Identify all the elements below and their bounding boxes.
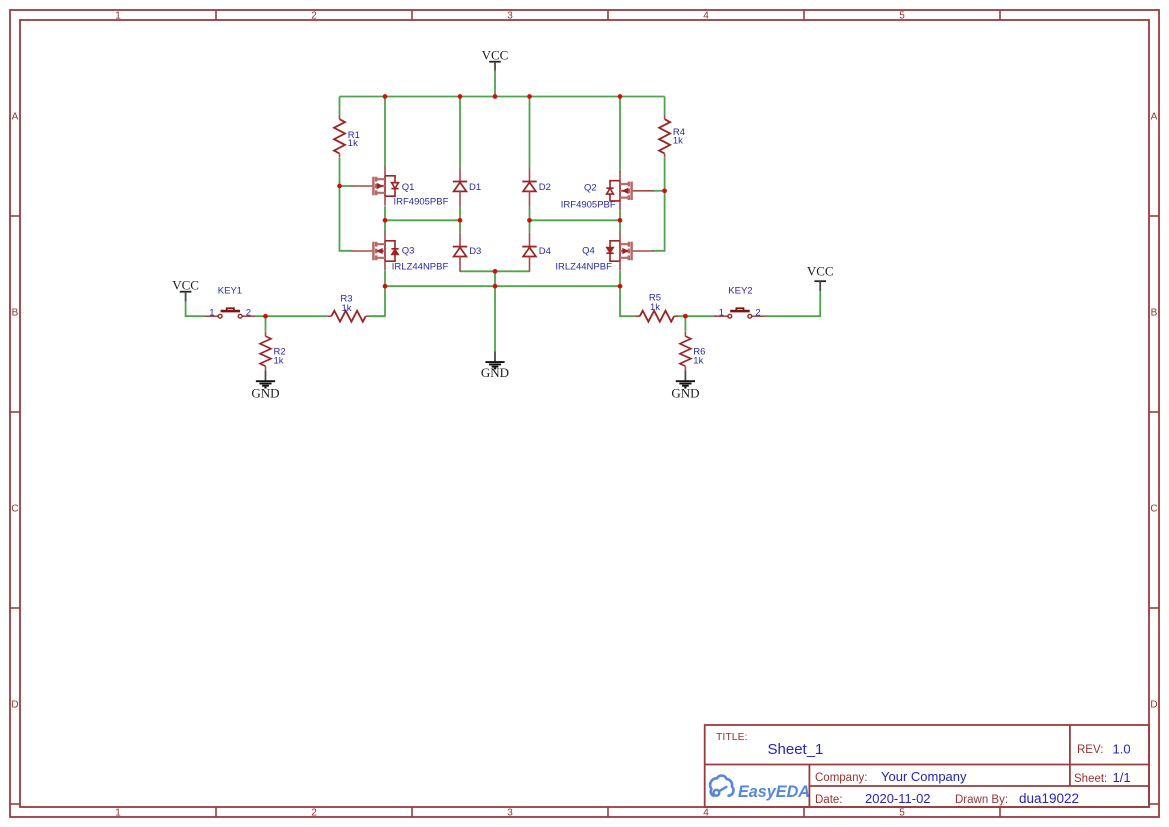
wire bus to Q2 drain [619, 97, 621, 173]
power flag VCC (left) [172, 278, 199, 302]
wire top VCC bus [340, 96, 665, 98]
svg-text:A: A [1151, 112, 1158, 123]
svg-text:C: C [1150, 504, 1157, 515]
svg-text:dua19022: dua19022 [1019, 791, 1079, 806]
wire left mid link [385, 219, 460, 221]
wire D3 to center node [460, 270, 495, 272]
wire junction [263, 314, 268, 319]
svg-text:KEY2: KEY2 [728, 286, 752, 297]
svg-text:Company:: Company: [815, 772, 867, 784]
wire R5 to KEY2 [675, 315, 717, 317]
diode D2 [522, 167, 551, 206]
wire R1 node to Q1 gate [340, 185, 353, 187]
wire source bus [385, 285, 620, 287]
svg-text:D4: D4 [539, 246, 551, 257]
svg-text:1k: 1k [650, 302, 660, 313]
wire node to R2 [265, 316, 267, 332]
diode D4 [522, 232, 551, 271]
svg-text:Your Company: Your Company [881, 769, 967, 784]
wire bus to Q1 drain [384, 97, 386, 167]
wire R4 to Q2/Q4 gates [652, 158, 664, 251]
svg-text:Sheet:: Sheet: [1074, 773, 1107, 785]
svg-text:3: 3 [507, 808, 513, 819]
svg-text:D: D [11, 700, 18, 711]
wire D1 to mid node [459, 207, 461, 221]
wire junction [618, 94, 623, 99]
wire VCC to KEY1 [186, 302, 205, 317]
wire bus to R1 [339, 97, 341, 116]
svg-text:C: C [11, 504, 18, 515]
svg-text:1.0: 1.0 [1113, 742, 1131, 757]
wire right mid link [530, 219, 621, 221]
transistor Q3 [352, 231, 399, 270]
wire mid node to Q3 drain [384, 220, 386, 231]
switch KEY2 [714, 286, 765, 319]
power flag VCC (top) [482, 47, 509, 71]
svg-text:Sheet_1: Sheet_1 [768, 741, 824, 758]
svg-text:1/1: 1/1 [1113, 770, 1131, 785]
wire bus to D2 [529, 97, 531, 168]
svg-text:3: 3 [507, 11, 513, 22]
ground GND (left) [251, 371, 279, 401]
svg-text:B: B [12, 308, 19, 319]
resistor R1 [334, 115, 360, 158]
svg-text:1: 1 [115, 808, 121, 819]
wire junction [527, 94, 532, 99]
resistor R2 [260, 332, 286, 370]
svg-text:4: 4 [703, 11, 709, 22]
title block [705, 725, 1149, 807]
svg-text:GND: GND [251, 386, 279, 401]
svg-text:2020-11-02: 2020-11-02 [865, 791, 931, 806]
diode D1 [453, 167, 481, 206]
wire center node to GND [494, 271, 496, 351]
wire R5 corner [636, 315, 640, 317]
svg-text:D: D [1150, 700, 1157, 711]
svg-text:1k: 1k [693, 355, 703, 366]
wire Q4 source to R5 corner [620, 271, 636, 316]
svg-text:D2: D2 [539, 182, 551, 193]
ground GND (center) [481, 351, 509, 380]
resistor R4 [659, 115, 685, 158]
svg-text:EasyEDA: EasyEDA [738, 783, 810, 801]
wire junction [383, 284, 388, 289]
svg-text:IRLZ44NPBF: IRLZ44NPBF [555, 262, 612, 273]
wire junction [527, 218, 532, 223]
svg-text:2: 2 [311, 11, 317, 22]
svg-text:IRF4905PBF: IRF4905PBF [394, 196, 449, 207]
wire junction [618, 284, 623, 289]
wire junction [493, 94, 498, 99]
svg-text:D1: D1 [469, 182, 481, 193]
svg-text:Q2: Q2 [584, 183, 597, 194]
transistor Q4 [606, 231, 653, 270]
svg-text:4: 4 [703, 808, 709, 819]
wire D4 to center node [495, 270, 530, 272]
svg-text:TITLE:: TITLE: [716, 731, 748, 743]
svg-text:Q3: Q3 [402, 246, 415, 257]
wire mid node to Q4 drain [619, 220, 621, 231]
wire junction [458, 94, 463, 99]
power flag VCC (right) [807, 264, 834, 292]
switch KEY1 [205, 286, 256, 319]
wire R1 to Q1/Q3 gates [340, 158, 353, 251]
svg-text:5: 5 [899, 808, 905, 819]
wire junction [493, 284, 498, 289]
wire node to R6 [684, 316, 686, 332]
wire Q2 source to mid node [619, 210, 621, 220]
svg-text:GND: GND [671, 386, 699, 401]
wire bus to R4 [664, 97, 666, 116]
wire junction [383, 94, 388, 99]
svg-text:IRF4905PBF: IRF4905PBF [561, 200, 616, 211]
svg-text:B: B [1151, 308, 1158, 319]
wire junction [683, 314, 688, 319]
svg-text:VCC: VCC [482, 47, 509, 62]
svg-text:1k: 1k [274, 355, 284, 366]
svg-text:Date:: Date: [815, 794, 843, 806]
resistor R3 [327, 293, 370, 321]
svg-text:Q1: Q1 [402, 182, 415, 193]
wire junction [383, 218, 388, 223]
wire KEY1 to R3 [256, 315, 328, 317]
wire junction [662, 188, 667, 193]
wire junction [493, 269, 498, 274]
ground GND (right) [671, 371, 699, 401]
wire bus to D1 [459, 97, 461, 168]
svg-text:D3: D3 [469, 246, 481, 257]
svg-text:VCC: VCC [172, 278, 199, 293]
svg-text:1k: 1k [341, 303, 351, 314]
wire KEY2 to VCC [765, 291, 820, 316]
svg-text:2: 2 [311, 808, 317, 819]
EasyEDA logo [710, 776, 810, 801]
wire mid node to D3 [459, 220, 461, 232]
wire junction [458, 218, 463, 223]
svg-text:1k: 1k [348, 138, 358, 149]
svg-text:5: 5 [899, 11, 905, 22]
wire VCC flag to bus [494, 71, 496, 97]
wire R4 node to Q2 gate [652, 190, 664, 192]
svg-text:2: 2 [246, 307, 251, 318]
svg-text:KEY1: KEY1 [218, 286, 242, 297]
svg-text:1k: 1k [673, 136, 683, 147]
svg-text:2: 2 [755, 307, 760, 318]
svg-text:IRLZ44NPBF: IRLZ44NPBF [392, 262, 449, 273]
wire junction [618, 218, 623, 223]
wire Q3 source to R3 corner [370, 271, 385, 316]
svg-text:1: 1 [115, 11, 121, 22]
wire D2 to mid node [529, 207, 531, 221]
svg-text:REV:: REV: [1077, 744, 1103, 756]
transistor Q2 [606, 171, 653, 210]
resistor R5 [636, 292, 679, 321]
svg-text:Q4: Q4 [582, 246, 595, 257]
svg-text:1: 1 [209, 307, 214, 318]
svg-text:GND: GND [481, 365, 509, 380]
wire junction [337, 184, 342, 189]
svg-text:VCC: VCC [807, 264, 834, 279]
svg-text:1: 1 [719, 307, 724, 318]
diode D3 [453, 232, 482, 271]
svg-text:A: A [12, 112, 19, 123]
wire R3 to corner [370, 315, 385, 317]
wire Q1 source to mid node [384, 206, 386, 220]
transistor Q1 [352, 166, 399, 205]
resistor R6 [680, 332, 706, 370]
wire mid node to D4 [529, 220, 531, 232]
svg-text:Drawn By:: Drawn By: [955, 794, 1008, 806]
